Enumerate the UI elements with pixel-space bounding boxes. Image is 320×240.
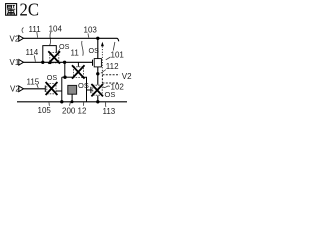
svg-text:115: 115: [27, 77, 40, 86]
node dot H4 c: [96, 100, 99, 103]
node dot H2b: [63, 76, 66, 79]
svg-text:OS: OS: [105, 90, 116, 99]
transistor 112 vertical lead from H1: [97, 38, 99, 58]
leader OS1: [58, 49, 60, 52]
svg-text:OS: OS: [78, 81, 89, 90]
wire 112 to node: [97, 67, 99, 85]
leader 115: [37, 85, 38, 88]
leader 112: [101, 70, 106, 74]
transistor 115 box: [47, 83, 56, 93]
svg-text:OS: OS: [89, 46, 100, 55]
stray mark: [22, 28, 24, 34]
leader 114: [34, 56, 35, 62]
svg-text:11: 11: [71, 49, 80, 58]
svg-text:114: 114: [26, 48, 39, 57]
block 200: [68, 85, 77, 94]
node dot H2 under T114: [49, 61, 52, 64]
transistor 113 gate lead: [87, 89, 93, 91]
svg-text:112: 112: [106, 62, 119, 71]
leader 102 squiggle: [103, 86, 110, 88]
wire from 110 to H4: [83, 77, 86, 102]
wire H4 bottom: [17, 101, 127, 103]
svg-text:2C: 2C: [20, 0, 40, 20]
leader 104: [50, 32, 52, 45]
transistor 115 gate bar: [44, 86, 46, 93]
annotation curve near node 103/11: [82, 41, 84, 56]
node dot H4 a: [60, 100, 63, 103]
wire 113 to H4: [97, 96, 99, 102]
svg-text:V2: V2: [122, 72, 132, 81]
svg-text:V1: V1: [10, 58, 20, 67]
transistor 113 off X: [91, 84, 103, 96]
transistor 115 off X: [46, 82, 58, 95]
svg-text:OS: OS: [59, 42, 70, 51]
transistor 112 box: [94, 59, 101, 67]
svg-text:105: 105: [38, 106, 52, 115]
transistor 112 gate bar: [92, 60, 94, 66]
leader 200: [69, 102, 72, 106]
transistor 110 off X: [72, 65, 85, 78]
wire H2 to H2b link: [64, 62, 66, 77]
leader 103: [87, 34, 90, 38]
wire V2b to 115 gate: [24, 88, 46, 90]
wire 115 top to H2b: [61, 77, 63, 91]
leader 111: [36, 32, 39, 38]
leader 113: [104, 102, 107, 107]
dashed wire to V2 out: [102, 74, 119, 76]
svg-text:103: 103: [84, 26, 98, 35]
wire H2 (V1 line): [24, 61, 93, 63]
node dot on H1: [96, 37, 99, 40]
node dot H2 left: [41, 61, 44, 64]
leader 101: [106, 57, 111, 60]
svg-text:12: 12: [78, 106, 87, 115]
title glyph 圖: [6, 4, 17, 16]
stem 200: [71, 94, 73, 102]
svg-text:V2: V2: [10, 34, 20, 43]
node dot mid right: [96, 72, 99, 75]
svg-text:OS: OS: [47, 73, 58, 82]
transistor 110 gate lead: [77, 62, 79, 67]
leader 12: [82, 102, 84, 106]
svg-text:200: 200: [62, 106, 76, 115]
transistor 114 off X: [48, 51, 60, 63]
transistor 110 box: [73, 67, 83, 78]
transistor 114 box: [50, 53, 59, 63]
dotted arrow 101: [101, 47, 103, 75]
svg-text:101: 101: [111, 50, 125, 59]
wire H1: [24, 38, 119, 41]
gate link 104 wire: [43, 46, 57, 63]
node dot H4 b: [71, 100, 74, 103]
svg-text:113: 113: [103, 107, 116, 116]
node dot H2 mid: [63, 61, 66, 64]
leader 105: [48, 102, 51, 106]
transistor 113 box: [93, 85, 102, 95]
svg-text:111: 111: [29, 25, 42, 34]
wire 115 right to H4: [56, 91, 62, 102]
wire H2b: [62, 76, 74, 78]
